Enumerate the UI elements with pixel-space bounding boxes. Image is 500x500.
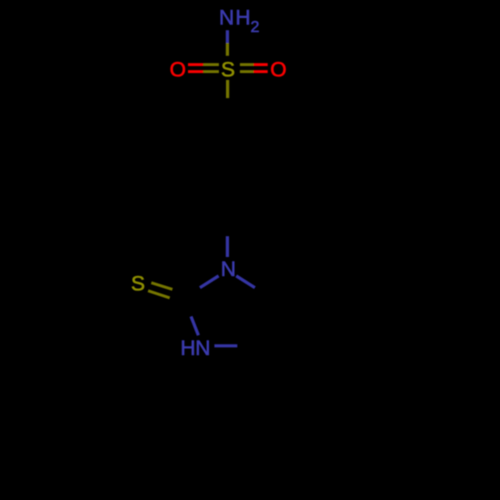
- double bond S1=O left, bottom line S half: [203, 70, 219, 73]
- double bond S1=O right, bottom line O half: [254, 70, 268, 73]
- bond S1-C(aryl) half near S1 (S colored): [226, 80, 229, 98]
- bond C2-N3 half near N3 (N colored): [191, 316, 198, 335]
- double bond C2=S2 lower line S half: [148, 291, 170, 298]
- svg-text:2: 2: [250, 19, 259, 36]
- double bond C2=S2 upper line S half: [151, 283, 172, 290]
- bond C(aryl)-N1 half near N1 (N colored): [226, 236, 229, 257]
- double bond S1=O right, bottom line S half: [240, 70, 254, 73]
- svg-text:O: O: [270, 58, 286, 81]
- svg-text:O: O: [170, 58, 186, 81]
- double bond S1=O right, top line O half: [254, 63, 268, 66]
- bond N1-C5 half near N1 (N colored): [236, 276, 255, 288]
- double bond S1=O left, top line O half: [188, 63, 203, 66]
- svg-text:H: H: [180, 337, 195, 360]
- svg-text:H: H: [235, 7, 250, 30]
- svg-text:S: S: [131, 272, 145, 295]
- svg-text:N: N: [219, 7, 234, 30]
- svg-text:N: N: [221, 258, 236, 281]
- bond N(amine)-S1 upper half (N colored): [226, 30, 229, 43]
- bond N(amine)-S1 lower half (S colored): [226, 43, 229, 56]
- svg-text:S: S: [221, 58, 235, 81]
- bond N1-C2 half near N1 (N colored): [200, 276, 219, 288]
- double bond S1=O left, top line S half: [203, 63, 219, 66]
- bond N3-C4 half near N3 (N colored): [214, 344, 237, 347]
- double bond S1=O right, top line S half: [240, 63, 254, 66]
- double bond S1=O left, bottom line O half: [188, 70, 203, 73]
- svg-text:N: N: [195, 337, 210, 360]
